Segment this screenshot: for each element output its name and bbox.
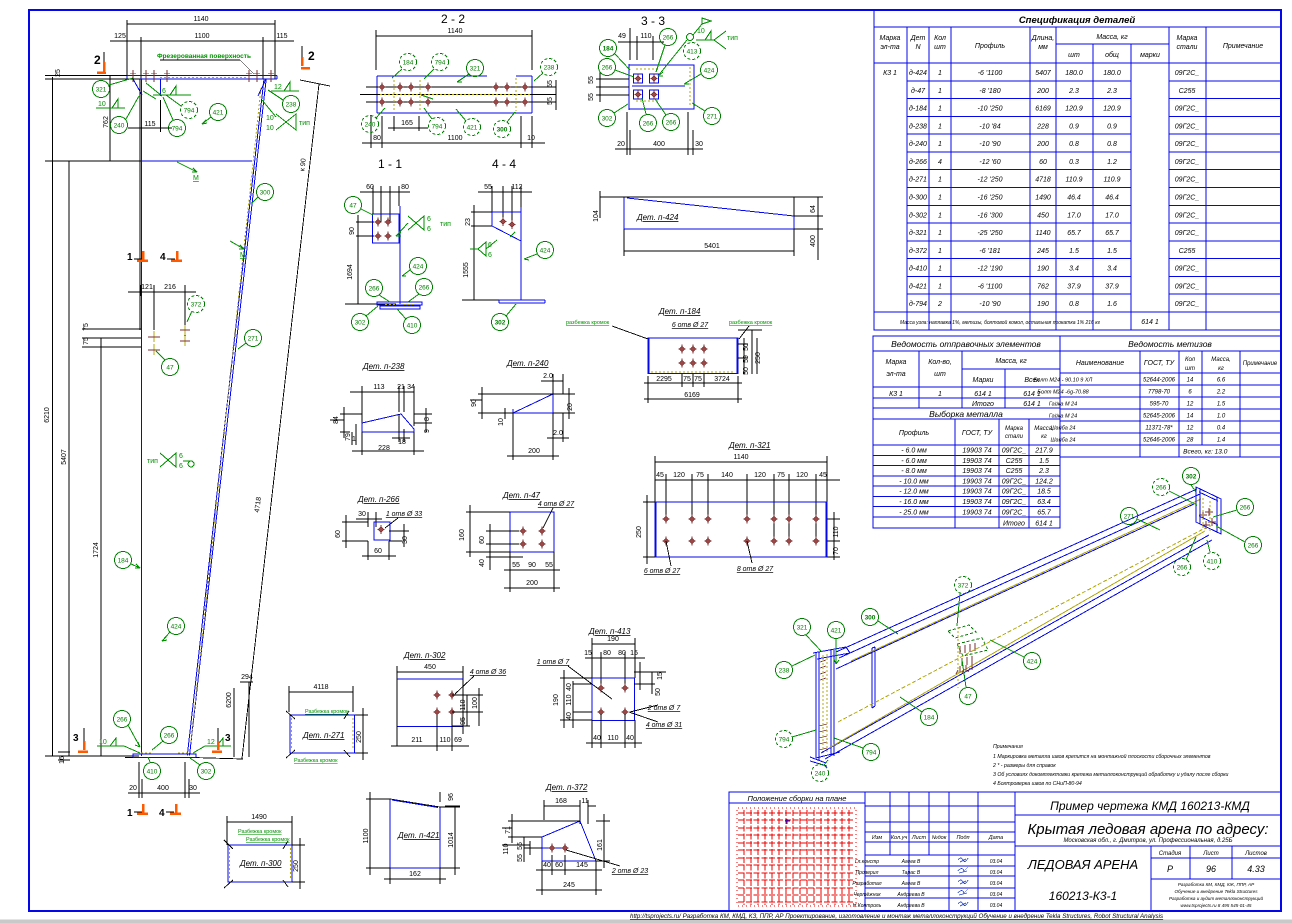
svg-text:Проверил: Проверил	[856, 870, 879, 876]
svg-text:д-410: д-410	[909, 265, 927, 273]
dims 121 216	[128, 285, 196, 345]
svg-text:266: 266	[117, 717, 128, 724]
svg-text:-25 '250: -25 '250	[977, 230, 1002, 237]
svg-text:49: 49	[618, 33, 626, 40]
green flag 10 tip	[687, 34, 694, 41]
svg-text:2295: 2295	[656, 376, 672, 383]
svg-text:Шайба 24: Шайба 24	[1051, 437, 1076, 444]
svg-text:0.4: 0.4	[1217, 426, 1226, 432]
svg-text:11371-78*: 11371-78*	[1145, 426, 1173, 432]
svg-text:266: 266	[1240, 505, 1251, 512]
bolts	[375, 218, 382, 227]
svg-text:1: 1	[938, 177, 942, 184]
svg-text:1140: 1140	[733, 454, 748, 461]
svg-text:794: 794	[172, 126, 183, 133]
svg-text:228: 228	[1036, 123, 1049, 130]
svg-text:7798-70: 7798-70	[1148, 390, 1171, 396]
svg-text:19903 74: 19903 74	[962, 468, 991, 475]
svg-text:Марка: Марка	[880, 35, 901, 42]
svg-text:12: 12	[1187, 426, 1194, 432]
svg-text:Положение сборки на плане: Положение сборки на плане	[748, 794, 847, 803]
svg-text:240: 240	[815, 771, 826, 778]
svg-text:Марки: Марки	[973, 377, 994, 384]
svg-text:52645-2006: 52645-2006	[1143, 414, 1176, 420]
svg-text:шт: шт	[934, 371, 946, 378]
plate 372	[492, 212, 521, 241]
svg-text:Дет. п-321: Дет. п-321	[728, 441, 770, 450]
svg-text:д-321: д-321	[909, 229, 927, 237]
svg-text:-12 '190: -12 '190	[977, 266, 1002, 273]
svg-text:200: 200	[1036, 88, 1049, 95]
bottom dims	[362, 116, 545, 148]
middle attachments	[948, 625, 976, 638]
svg-text:К3 1: К3 1	[883, 70, 897, 77]
callout 238	[283, 96, 300, 113]
svg-text:09Г2С_: 09Г2С_	[1002, 509, 1027, 516]
svg-text:28: 28	[1186, 438, 1194, 444]
svg-text:1: 1	[127, 808, 133, 819]
svg-text:5407: 5407	[61, 449, 68, 465]
svg-text:д-240: д-240	[909, 140, 927, 148]
base plate	[45, 755, 139, 757]
svg-text:75: 75	[83, 337, 90, 345]
svg-text:Дет. п-266: Дет. п-266	[357, 495, 400, 504]
olive hatch + bolts left end	[819, 660, 827, 750]
svg-text:50: 50	[655, 688, 662, 696]
svg-text:1: 1	[127, 252, 133, 263]
svg-text:19903 74: 19903 74	[962, 509, 991, 516]
svg-text:5407: 5407	[1035, 70, 1052, 77]
assembly position panel	[729, 792, 865, 911]
svg-text:184: 184	[118, 558, 129, 565]
svg-text:1140: 1140	[447, 28, 462, 35]
svg-text:240: 240	[365, 122, 376, 129]
callout 424	[168, 618, 185, 635]
detail p-300	[227, 816, 292, 845]
svg-text:110: 110	[439, 737, 450, 744]
svg-text:2.3: 2.3	[1106, 88, 1117, 95]
svg-text:372: 372	[191, 302, 202, 309]
svg-text:0.8: 0.8	[1069, 141, 1079, 148]
svg-text:1: 1	[938, 88, 942, 95]
svg-text:Дет. п-413: Дет. п-413	[588, 627, 631, 636]
detail p-271	[289, 686, 353, 712]
svg-text:238: 238	[286, 102, 297, 109]
svg-text:266: 266	[369, 286, 380, 293]
svg-text:124.2: 124.2	[1035, 478, 1053, 485]
flange bolts	[130, 70, 274, 82]
svg-text:321: 321	[96, 87, 107, 94]
svg-text:12: 12	[1187, 402, 1194, 408]
svg-text:Дет. п-47: Дет. п-47	[502, 491, 541, 500]
svg-text:6: 6	[179, 463, 183, 470]
svg-text:Ведомость метизов: Ведомость метизов	[1128, 339, 1212, 349]
svg-text:6 отв Ø 27: 6 отв Ø 27	[644, 568, 681, 575]
svg-text:Дет. п-300: Дет. п-300	[239, 859, 282, 868]
dim 115 at top	[128, 85, 172, 132]
svg-text:Гайка М 24: Гайка М 24	[1049, 413, 1077, 420]
inner web stub	[160, 79, 162, 96]
svg-text:кг: кг	[1218, 366, 1224, 372]
svg-text:3.4: 3.4	[1107, 266, 1117, 273]
svg-text:1.6: 1.6	[1107, 301, 1117, 308]
svg-text:300: 300	[497, 127, 508, 134]
svg-text:1140: 1140	[1035, 230, 1050, 237]
top flange plate 321 edge-on	[813, 647, 850, 659]
svg-text:Примечание: Примечание	[1243, 361, 1278, 367]
callout 372 dashed	[188, 296, 205, 313]
svg-text:Шайба 24: Шайба 24	[1051, 425, 1076, 432]
bottom flange	[499, 300, 545, 303]
svg-text:190: 190	[1037, 266, 1049, 273]
callout 266 left	[114, 711, 131, 728]
top dim 1140	[110, 20, 294, 79]
svg-text:Итого: Итого	[972, 401, 994, 408]
svg-text:Подп: Подп	[956, 835, 969, 841]
svg-text:60: 60	[335, 530, 342, 538]
svg-text:450: 450	[424, 664, 436, 671]
svg-text:-10 '90: -10 '90	[979, 141, 1000, 148]
svg-text:19903 74: 19903 74	[962, 458, 991, 465]
svg-text:614 1: 614 1	[1023, 401, 1041, 408]
svg-text:Всего, кг:: Всего, кг:	[1183, 449, 1213, 456]
svg-text:160213-К3-1: 160213-К3-1	[1049, 889, 1117, 903]
weld flag 12	[271, 82, 299, 91]
svg-text:1100: 1100	[194, 33, 209, 40]
svg-text:3.4: 3.4	[1069, 266, 1079, 273]
svg-text:75: 75	[683, 376, 691, 383]
svg-text:6.6: 6.6	[1217, 378, 1226, 384]
svg-text:6: 6	[162, 88, 166, 95]
svg-text:266: 266	[1177, 565, 1188, 572]
svg-text:200: 200	[526, 580, 538, 587]
svg-text:410: 410	[407, 323, 418, 330]
svg-text:М: М	[193, 175, 199, 182]
svg-text:4 отв Ø 36: 4 отв Ø 36	[470, 669, 506, 676]
svg-text:321: 321	[470, 66, 481, 73]
svg-text:1694: 1694	[347, 264, 354, 280]
left end (column top) verticals	[816, 649, 834, 760]
svg-text:C255: C255	[1179, 88, 1196, 95]
svg-text:д-302: д-302	[909, 211, 927, 219]
svg-text:12: 12	[207, 739, 215, 746]
svg-text:6169: 6169	[1035, 106, 1051, 113]
svg-text:1100: 1100	[447, 135, 462, 142]
svg-text:Дата: Дата	[988, 835, 1004, 841]
svg-text:69: 69	[454, 737, 462, 744]
callout 410	[144, 763, 161, 780]
svg-text:216: 216	[164, 284, 176, 291]
svg-text:Разбежка кромок: Разбежка кромок	[246, 837, 290, 843]
svg-text:110.9: 110.9	[1104, 177, 1121, 184]
svg-text:184: 184	[403, 60, 414, 67]
svg-text:19903 74: 19903 74	[962, 489, 991, 496]
svg-text:Гл.констр: Гл.констр	[855, 859, 879, 865]
svg-text:C255: C255	[1179, 248, 1196, 255]
svg-text:1724: 1724	[93, 542, 100, 558]
svg-text:6: 6	[488, 252, 492, 259]
svg-text:4118: 4118	[313, 684, 328, 691]
svg-text:6: 6	[427, 216, 431, 223]
svg-text:120.9: 120.9	[1103, 106, 1121, 113]
svg-text:Наименование: Наименование	[1076, 360, 1124, 367]
svg-text:110: 110	[566, 694, 573, 705]
callout 302	[198, 763, 215, 780]
web	[399, 206, 401, 304]
svg-text:стали: стали	[1177, 44, 1198, 51]
callout 271	[245, 330, 262, 347]
svg-text:112: 112	[511, 184, 522, 191]
svg-text:595-70: 595-70	[1150, 402, 1169, 408]
svg-text:160: 160	[459, 529, 466, 541]
red grid	[738, 810, 855, 905]
svg-text:120: 120	[796, 472, 808, 479]
svg-text:4: 4	[159, 808, 165, 819]
svg-text:266: 266	[1156, 485, 1167, 492]
svg-text:9: 9	[424, 429, 431, 433]
base plates	[377, 302, 422, 305]
svg-text:410: 410	[1207, 559, 1218, 566]
svg-text:Андреева В: Андреева В	[896, 892, 925, 898]
svg-text:238: 238	[779, 668, 790, 675]
middle sign table	[890, 792, 978, 911]
svg-text:Дет. п-240: Дет. п-240	[506, 359, 549, 368]
svg-text:794: 794	[184, 108, 195, 115]
svg-text:-6 '181: -6 '181	[979, 248, 1000, 255]
svg-text:240: 240	[114, 123, 125, 130]
svg-text:113: 113	[373, 384, 384, 391]
bolts	[500, 217, 507, 226]
svg-text:1.2: 1.2	[1107, 159, 1117, 166]
svg-text:6210: 6210	[44, 407, 51, 423]
svg-text:302: 302	[1186, 474, 1197, 481]
svg-text:-16 '300: -16 '300	[977, 212, 1002, 219]
svg-text:6169: 6169	[684, 392, 700, 399]
svg-text:228: 228	[378, 445, 390, 452]
svg-text:65.7: 65.7	[1105, 230, 1120, 237]
svg-text:- 6.0 мм: - 6.0 мм	[901, 458, 927, 465]
svg-text:424: 424	[413, 264, 424, 271]
callout 240	[111, 117, 128, 134]
svg-text:Ведомость отправочных элементо: Ведомость отправочных элементов	[891, 339, 1041, 349]
svg-text:Дет. п-302: Дет. п-302	[403, 651, 446, 660]
svg-text:47: 47	[166, 365, 174, 372]
svg-text:15: 15	[630, 650, 638, 657]
svg-text:Дет. п-271: Дет. п-271	[302, 731, 344, 740]
svg-text:95: 95	[460, 717, 467, 725]
svg-text:ГОСТ, ТУ: ГОСТ, ТУ	[962, 430, 994, 437]
svg-text:10: 10	[266, 115, 274, 122]
svg-text:2 - 2: 2 - 2	[441, 12, 465, 26]
svg-text:400: 400	[653, 141, 665, 148]
svg-text:-10 '90: -10 '90	[979, 301, 1000, 308]
svg-text:09Г2С_: 09Г2С_	[1175, 195, 1200, 202]
svg-text:13.0: 13.0	[1215, 449, 1228, 456]
callouts 1-1	[345, 197, 362, 214]
svg-text:165: 165	[401, 120, 413, 127]
svg-text:Масса, кг: Масса, кг	[1096, 34, 1128, 41]
svg-text:стали: стали	[1005, 434, 1024, 440]
svg-text:794: 794	[432, 124, 443, 131]
svg-text:Разработка КМ, КМД, КЖ, ППР, А: Разработка КМ, КМД, КЖ, ППР, АР	[1178, 882, 1255, 887]
svg-text:217.9: 217.9	[1034, 448, 1053, 455]
svg-text:09Г2С_: 09Г2С_	[1175, 106, 1200, 113]
svg-text:46.4: 46.4	[1105, 195, 1119, 202]
svg-text:тип: тип	[727, 35, 738, 42]
svg-text:Дет: Дет	[910, 35, 926, 42]
svg-text:4718: 4718	[1035, 177, 1051, 184]
svg-text:тип: тип	[147, 458, 158, 465]
svg-text:Чертёжник: Чертёжник	[853, 892, 881, 898]
svg-text:1: 1	[352, 436, 356, 443]
svg-text:09Г2С_: 09Г2С_	[1175, 283, 1200, 290]
svg-text:184: 184	[924, 715, 935, 722]
svg-text:шт: шт	[1185, 366, 1195, 372]
svg-text:271: 271	[248, 336, 259, 343]
svg-text:14: 14	[1187, 414, 1194, 420]
svg-text:96: 96	[448, 793, 455, 801]
svg-text:55: 55	[484, 184, 492, 191]
svg-text:55: 55	[588, 76, 595, 84]
svg-text:Агеев В: Агеев В	[901, 859, 921, 865]
black ext lines top area	[45, 76, 141, 162]
svg-text:03.04: 03.04	[990, 903, 1003, 909]
svg-text:794: 794	[866, 750, 877, 757]
svg-text:4 - 4: 4 - 4	[492, 157, 516, 171]
svg-text:0.3: 0.3	[1069, 159, 1079, 166]
svg-text:60: 60	[374, 548, 382, 555]
svg-text:321: 321	[797, 625, 808, 632]
svg-text:шт: шт	[934, 44, 946, 51]
svg-text:Спецификация деталей: Спецификация деталей	[1019, 15, 1136, 26]
svg-text:3 Об условиях докомплектовки: 3 Об условиях докомплектовки крепежа мет…	[993, 771, 1229, 778]
svg-text:300: 300	[865, 615, 876, 622]
svg-text:Гайка М 24: Гайка М 24	[1049, 401, 1077, 408]
svg-text:30: 30	[358, 511, 366, 518]
svg-text:190: 190	[553, 694, 560, 706]
svg-text:шт: шт	[1068, 52, 1080, 59]
svg-text:190: 190	[607, 636, 619, 643]
web right	[520, 207, 522, 300]
svg-text:03.04: 03.04	[990, 859, 1003, 865]
svg-text:120: 120	[673, 472, 685, 479]
svg-text:1.5: 1.5	[1069, 248, 1079, 255]
svg-text:110: 110	[833, 526, 840, 537]
svg-text:65.7: 65.7	[1037, 509, 1052, 516]
svg-text:45: 45	[819, 472, 827, 479]
svg-text:40: 40	[593, 735, 601, 742]
svg-text:10: 10	[266, 125, 274, 132]
svg-text:1490: 1490	[1035, 195, 1051, 202]
svg-text:1.0: 1.0	[1217, 414, 1226, 420]
svg-text:140: 140	[721, 472, 733, 479]
svg-text:-8 '180: -8 '180	[979, 88, 1000, 95]
right end plate	[1196, 487, 1221, 534]
svg-text:д-184: д-184	[909, 105, 927, 113]
svg-text:1: 1	[938, 70, 942, 77]
svg-text:115: 115	[276, 33, 287, 40]
svg-text:Изм: Изм	[872, 835, 882, 841]
detail p-421	[390, 792, 460, 807]
svg-text:Н.Контроль: Н.Контроль	[853, 903, 882, 909]
svg-text:2.0: 2.0	[543, 373, 553, 380]
svg-text:09Г2С_: 09Г2С_	[1175, 177, 1200, 184]
svg-text:55: 55	[547, 97, 554, 105]
axis lines	[360, 87, 556, 102]
svg-text:100: 100	[472, 697, 479, 709]
svg-text:20: 20	[567, 403, 574, 411]
svg-text:250: 250	[636, 526, 643, 538]
callout 47	[162, 359, 179, 376]
svg-text:762: 762	[1037, 283, 1049, 290]
svg-text:1.5: 1.5	[1217, 402, 1226, 408]
svg-text:6: 6	[427, 226, 431, 233]
svg-text:63.4: 63.4	[1037, 499, 1051, 506]
svg-text:Лист: Лист	[911, 835, 927, 841]
svg-text:110.9: 110.9	[1066, 177, 1083, 184]
svg-text:47: 47	[964, 694, 972, 701]
dims bottom	[644, 374, 742, 387]
title block frame	[729, 792, 1281, 911]
svg-text:2.0: 2.0	[553, 430, 563, 437]
svg-text:2.3: 2.3	[1038, 468, 1049, 475]
svg-text:мм: мм	[1038, 44, 1048, 51]
svg-text:200: 200	[1036, 141, 1049, 148]
svg-text:09Г2С_: 09Г2С_	[1175, 266, 1200, 273]
svg-text:302: 302	[201, 769, 212, 776]
svg-text:302: 302	[495, 320, 506, 327]
svg-text:59: 59	[743, 355, 750, 363]
svg-text:1: 1	[938, 141, 942, 148]
svg-text:110: 110	[607, 735, 618, 742]
bolts row	[379, 83, 529, 107]
svg-text:614 1: 614 1	[1141, 319, 1159, 326]
weld flag 10	[96, 99, 125, 108]
svg-text:1.5: 1.5	[1107, 248, 1117, 255]
svg-text:121: 121	[141, 284, 153, 291]
weld mark M lower	[230, 241, 244, 249]
svg-text:д-372: д-372	[909, 247, 927, 255]
svg-text:71: 71	[505, 826, 512, 834]
svg-text:794: 794	[779, 737, 790, 744]
bevel corners	[133, 79, 266, 96]
svg-text:21: 21	[397, 384, 405, 391]
svg-text:Примечания: Примечания	[993, 744, 1023, 750]
svg-text:410: 410	[147, 769, 158, 776]
svg-text:421: 421	[467, 125, 478, 132]
svg-text:C255: C255	[1006, 468, 1023, 475]
svg-text:Кол: Кол	[934, 35, 946, 42]
svg-text:614 1: 614 1	[1035, 521, 1053, 528]
svg-text:294: 294	[241, 674, 253, 681]
weld flag 10 bottom	[97, 738, 124, 746]
svg-text:Р: Р	[1167, 864, 1173, 874]
svg-text:Профиль: Профиль	[975, 43, 1006, 50]
svg-text:№док: №док	[932, 835, 947, 841]
svg-text:19903 74: 19903 74	[962, 499, 991, 506]
svg-text:Обучение и внедрение Tekla Str: Обучение и внедрение Tekla Structures	[1174, 889, 1258, 894]
svg-text:0.8: 0.8	[1107, 141, 1117, 148]
left flange of column	[141, 79, 143, 756]
svg-text:10: 10	[98, 101, 106, 108]
weld flag 12 bottom	[205, 738, 231, 746]
svg-text:1 - 1: 1 - 1	[378, 157, 402, 171]
svg-text:ГОСТ, ТУ: ГОСТ, ТУ	[1144, 360, 1176, 367]
dim 165	[388, 116, 428, 131]
svg-text:Пример чертежа КМД 160213-КМД: Пример чертежа КМД 160213-КМД	[1050, 799, 1250, 813]
svg-text:03.04: 03.04	[990, 892, 1003, 898]
svg-text:1: 1	[938, 195, 942, 202]
